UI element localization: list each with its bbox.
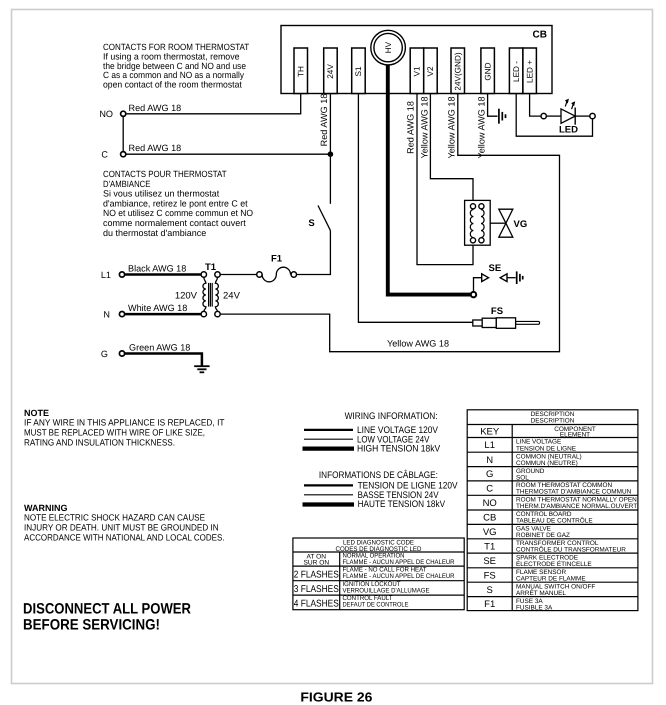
svg-text:THERMOSTAT D'AMBIANCE COMMUN: THERMOSTAT D'AMBIANCE COMMUN bbox=[516, 489, 632, 496]
legend haute tension sample bbox=[303, 502, 355, 506]
svg-text:d'ambiance, retirez le pont en: d'ambiance, retirez le pont entre C et bbox=[103, 198, 248, 208]
terminal LED - bbox=[509, 48, 523, 94]
table key description bbox=[467, 410, 638, 611]
svg-text:CB: CB bbox=[533, 30, 547, 41]
terminal pin labels bbox=[296, 52, 534, 90]
wire L1 black AWG 18 bbox=[122, 273, 202, 276]
svg-text:ELEMENT: ELEMENT bbox=[560, 431, 590, 438]
svg-text:VG: VG bbox=[514, 219, 528, 230]
svg-text:SE: SE bbox=[489, 263, 502, 274]
switch S blade bbox=[318, 206, 330, 231]
svg-text:Si vous utilisez un thermostat: Si vous utilisez un thermostat bbox=[103, 189, 220, 199]
svg-text:FLAMME - AUCUN APPEL DE CHALEU: FLAMME - AUCUN APPEL DE CHALEUR bbox=[343, 573, 455, 580]
terminal V1 bbox=[410, 48, 424, 94]
terminal TH bbox=[294, 48, 308, 94]
svg-text:SUR ON: SUR ON bbox=[303, 559, 329, 566]
svg-text:COMMUN (NEUTRE): COMMUN (NEUTRE) bbox=[516, 460, 578, 467]
fuse F1 bbox=[262, 267, 290, 282]
HV terminal (double circle) bbox=[371, 30, 406, 65]
svg-text:N: N bbox=[486, 455, 493, 466]
svg-text:24V: 24V bbox=[326, 64, 335, 79]
svg-text:Green AWG 18: Green AWG 18 bbox=[129, 343, 190, 353]
wire C contact to 24V junction bbox=[123, 153, 330, 155]
svg-text:DISCONNECT ALL POWER: DISCONNECT ALL POWER bbox=[23, 600, 191, 617]
wire G green AWG 18 bbox=[122, 354, 202, 366]
svg-text:ÉLECTRODE ÉTINCELLE: ÉLECTRODE ÉTINCELLE bbox=[516, 560, 592, 568]
svg-text:Red AWG 18: Red AWG 18 bbox=[406, 101, 416, 154]
svg-text:HV: HV bbox=[384, 41, 393, 53]
svg-text:CONTACTS POUR THERMOSTAT: CONTACTS POUR THERMOSTAT bbox=[103, 169, 227, 179]
ground symbol at spark electrode (sideways) bbox=[517, 271, 523, 284]
note wire replacement bbox=[24, 408, 225, 447]
svg-text:G: G bbox=[101, 349, 108, 359]
node NO bbox=[121, 111, 126, 116]
wire S1 terminal to flame sensor FS bbox=[358, 93, 472, 322]
svg-text:Red AWG 18: Red AWG 18 bbox=[129, 103, 182, 113]
wire V2 terminal to gas valve VG top bbox=[430, 93, 473, 202]
svg-text:NO: NO bbox=[99, 109, 113, 119]
svg-text:SE: SE bbox=[483, 556, 496, 567]
wire transformer secondary bottom loop to 24V(GND) terminal bbox=[218, 93, 560, 352]
svg-text:Black AWG 18: Black AWG 18 bbox=[128, 264, 186, 274]
wire switch S to fuse F1 bbox=[296, 230, 330, 274]
svg-text:KEY: KEY bbox=[480, 427, 500, 438]
high tension thick wire HV to spark electrode bbox=[388, 62, 471, 295]
svg-text:INJURY OR DEATH. UNIT MUST BE: INJURY OR DEATH. UNIT MUST BE GROUNDED I… bbox=[24, 523, 219, 533]
svg-text:NOTE ELECTRIC SHOCK HAZARD CAN: NOTE ELECTRIC SHOCK HAZARD CAN CAUSE bbox=[24, 513, 205, 523]
svg-text:C: C bbox=[101, 150, 108, 160]
LED indicator bbox=[541, 99, 595, 136]
svg-text:ARRÊT MANUEL: ARRÊT MANUEL bbox=[516, 589, 566, 597]
wire V1 terminal to gas valve VG bottom bbox=[417, 93, 473, 265]
svg-text:LED: LED bbox=[559, 125, 578, 136]
svg-text:open contact of the room therm: open contact of the room thermostat bbox=[103, 80, 242, 90]
svg-text:T1: T1 bbox=[484, 541, 495, 552]
terminal 24V(GND) bbox=[451, 48, 465, 94]
node junction dot C / 24V bbox=[328, 151, 334, 157]
node G bbox=[119, 351, 124, 356]
svg-text:TENSION DE LIGNE: TENSION DE LIGNE bbox=[516, 445, 576, 452]
svg-text:VG: VG bbox=[483, 527, 497, 538]
node L1 bbox=[119, 272, 124, 277]
svg-text:White AWG 18: White AWG 18 bbox=[128, 303, 187, 313]
svg-text:CB: CB bbox=[483, 513, 496, 524]
gas valve VG solenoid bbox=[465, 200, 491, 245]
svg-text:L1: L1 bbox=[484, 440, 495, 451]
svg-text:RATING AND INSULATION THICKNES: RATING AND INSULATION THICKNESS. bbox=[24, 437, 175, 447]
svg-text:FS: FS bbox=[484, 570, 496, 581]
svg-text:GND: GND bbox=[483, 62, 492, 80]
svg-text:DESCRIPTION: DESCRIPTION bbox=[531, 417, 575, 424]
svg-text:C: C bbox=[486, 484, 493, 495]
wire GND terminal to chassis ground bbox=[488, 93, 498, 116]
svg-text:S: S bbox=[487, 585, 493, 596]
wire fuse F1 to transformer secondary top bbox=[218, 274, 257, 276]
svg-text:Red AWG 18: Red AWG 18 bbox=[129, 143, 182, 153]
svg-text:F1: F1 bbox=[271, 254, 283, 265]
line-voltage thick wires bbox=[122, 275, 202, 366]
svg-text:LED +: LED + bbox=[525, 60, 534, 83]
ROTATED WIRE LABELS bbox=[319, 94, 487, 159]
svg-text:ACCORDANCE WITH NATIONAL AND L: ACCORDANCE WITH NATIONAL AND LOCAL CODES… bbox=[24, 533, 225, 543]
svg-text:CONTRÔLE DU TRANSFORMATEUR: CONTRÔLE DU TRANSFORMATEUR bbox=[516, 546, 626, 554]
svg-text:Yellow AWG 18: Yellow AWG 18 bbox=[387, 338, 449, 348]
terminal 24V bbox=[324, 48, 338, 94]
legend line voltage sample bbox=[304, 429, 353, 431]
svg-text:NO et utilisez C comme commun: NO et utilisez C comme commun et NO bbox=[103, 208, 253, 218]
svg-text:Red AWG 18: Red AWG 18 bbox=[319, 94, 329, 147]
svg-text:S: S bbox=[308, 218, 314, 229]
control board CB bbox=[281, 26, 552, 94]
legend basse tension sample bbox=[304, 494, 353, 496]
node C bbox=[121, 152, 126, 157]
svg-text:CAPTEUR DE FLAMME: CAPTEUR DE FLAMME bbox=[516, 576, 586, 583]
svg-text:FLAMME - AUCUN APPEL DE CHALEU: FLAMME - AUCUN APPEL DE CHALEUR bbox=[343, 559, 455, 566]
svg-text:VERROUILLAGE D'ALLUMAGE: VERROUILLAGE D'ALLUMAGE bbox=[343, 588, 431, 595]
svg-text:Yellow AWG 18: Yellow AWG 18 bbox=[419, 96, 429, 158]
wire spark electrode SE lead bbox=[474, 278, 482, 292]
legend wiring information bbox=[319, 411, 458, 510]
terminal GND bbox=[481, 48, 495, 94]
svg-text:4 FLASHES: 4 FLASHES bbox=[294, 598, 339, 609]
warning electric shock bbox=[24, 503, 225, 543]
svg-text:THERM.D'AMBIANCE NORMAL.OUVERT: THERM.D'AMBIANCE NORMAL.OUVERT bbox=[516, 503, 637, 510]
svg-text:INFORMATIONS DE CÂBLAGE:: INFORMATIONS DE CÂBLAGE: bbox=[319, 469, 438, 481]
ground symbol at GND terminal (sideways) bbox=[499, 109, 506, 124]
legend high tension sample bbox=[303, 447, 355, 451]
svg-text:S1: S1 bbox=[354, 66, 363, 76]
LEFT SIDE LABELS bbox=[99, 103, 449, 359]
svg-text:ROBINET DE GAZ: ROBINET DE GAZ bbox=[516, 532, 570, 539]
valve body VG bbox=[490, 209, 527, 237]
CONTACT CIRCLES bbox=[119, 111, 125, 356]
legend low voltage sample bbox=[304, 438, 353, 440]
svg-text:Yellow AWG 18: Yellow AWG 18 bbox=[447, 96, 457, 158]
svg-text:BEFORE SERVICING!: BEFORE SERVICING! bbox=[23, 616, 160, 633]
svg-text:LED -: LED - bbox=[512, 61, 521, 82]
svg-text:WARNING: WARNING bbox=[24, 503, 68, 513]
svg-text:HIGH TENSION 18kV: HIGH TENSION 18kV bbox=[357, 444, 441, 455]
wire SE gap to ground bbox=[507, 277, 515, 279]
terminal V2 bbox=[424, 48, 438, 94]
svg-text:D'AMBIANCE: D'AMBIANCE bbox=[103, 179, 150, 189]
svg-text:V1: V1 bbox=[413, 66, 422, 76]
svg-text:N: N bbox=[103, 310, 110, 320]
svg-text:SOL: SOL bbox=[516, 474, 529, 481]
terminal S1 bbox=[352, 48, 366, 94]
svg-text:3 FLASHES: 3 FLASHES bbox=[294, 584, 339, 595]
caption FIGURE 26 bbox=[300, 690, 372, 705]
svg-text:24V: 24V bbox=[223, 291, 241, 302]
wire 24V terminal to switch S bbox=[329, 93, 331, 204]
svg-text:DEFAUT DE CONTROLE: DEFAUT DE CONTROLE bbox=[343, 602, 410, 609]
svg-text:V2: V2 bbox=[426, 66, 435, 76]
wire LED- terminal to LED cathode bbox=[516, 93, 592, 136]
warning disconnect all power bbox=[23, 600, 191, 633]
svg-text:TABLEAU DE CONTRÔLE: TABLEAU DE CONTRÔLE bbox=[516, 517, 593, 525]
svg-text:du thermostat d'ambiance: du thermostat d'ambiance bbox=[103, 228, 206, 238]
svg-text:comme normalement contact ouve: comme normalement contact ouvert bbox=[103, 218, 246, 228]
svg-text:FIGURE 26: FIGURE 26 bbox=[300, 690, 372, 705]
node N bbox=[119, 312, 124, 317]
ground symbol below green wire bbox=[194, 366, 209, 372]
transformer T1 bbox=[203, 277, 218, 312]
svg-text:IF ANY WIRE IN THIS APPLIANCE: IF ANY WIRE IN THIS APPLIANCE IS REPLACE… bbox=[24, 418, 225, 428]
svg-text:FS: FS bbox=[491, 306, 503, 317]
wire TH terminal to NO contact bbox=[123, 93, 301, 114]
legend tension de ligne sample bbox=[304, 484, 353, 486]
svg-text:WIRING INFORMATION:: WIRING INFORMATION: bbox=[345, 411, 438, 422]
svg-text:Yellow AWG 18: Yellow AWG 18 bbox=[476, 96, 486, 158]
svg-text:NO: NO bbox=[483, 498, 497, 509]
svg-text:HAUTE TENSION 18kV: HAUTE TENSION 18kV bbox=[358, 499, 446, 510]
svg-text:F1: F1 bbox=[484, 599, 495, 610]
svg-text:2 FLASHES: 2 FLASHES bbox=[294, 570, 339, 581]
svg-text:G: G bbox=[486, 469, 493, 480]
svg-text:TH: TH bbox=[296, 66, 305, 77]
flame sensor FS bbox=[473, 306, 540, 329]
svg-text:MUST BE REPLACED WITH WIRE OF: MUST BE REPLACED WITH WIRE OF LIKE SIZE, bbox=[24, 428, 205, 438]
table LED diagnostic code bbox=[293, 538, 464, 610]
svg-text:L1: L1 bbox=[101, 270, 111, 280]
CB TERMINALS bbox=[294, 48, 536, 94]
wire bridge between NO and C bbox=[122, 114, 124, 154]
wire N white AWG 18 bbox=[122, 313, 202, 316]
wire LED+ terminal to LED anode bbox=[530, 93, 542, 116]
svg-text:24V(GND): 24V(GND) bbox=[453, 52, 462, 90]
terminal LED + bbox=[523, 48, 537, 94]
spark electrode SE bbox=[471, 263, 507, 298]
svg-text:T1: T1 bbox=[205, 262, 217, 273]
svg-text:120V: 120V bbox=[175, 291, 198, 302]
svg-text:FUSIBLE 3A: FUSIBLE 3A bbox=[516, 604, 553, 611]
TEXT BLOCKS bbox=[103, 42, 253, 238]
